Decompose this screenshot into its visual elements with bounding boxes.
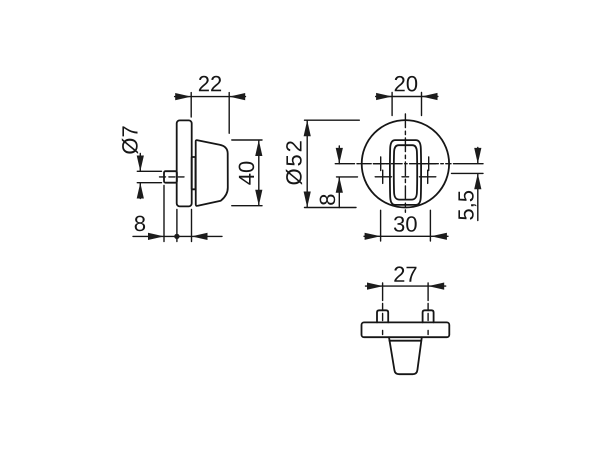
arrow 22 left — [175, 93, 191, 100]
label O52 — [286, 141, 302, 185]
arrow 22 right — [229, 93, 245, 100]
dimension 5,5 lines — [452, 148, 484, 221]
dimension 20 lines — [376, 93, 438, 116]
vertical centerline front view — [404, 114, 406, 212]
dimension 8 side view lines — [133, 186, 222, 242]
arrow O7 top — [137, 156, 144, 172]
spindle axis dashed centerline — [160, 176, 185, 178]
dimension texts — [122, 76, 477, 282]
turn knob side view — [196, 140, 228, 206]
lug cross right — [427, 170, 429, 183]
arrow 30 left — [365, 233, 381, 240]
dimension 40 lines — [232, 140, 262, 206]
arrow 27 right — [428, 283, 444, 290]
bottom view lug centerline right — [427, 304, 429, 335]
dot 8 side chain — [174, 234, 179, 239]
horizontal centerline front view — [335, 163, 371, 165]
arrow 5,5 bottom — [474, 173, 481, 189]
turn knob front view outer — [390, 140, 421, 205]
label 8 front — [320, 195, 336, 205]
arrow 8 front top — [336, 148, 343, 164]
screw hole cross left — [374, 157, 388, 171]
arrow 8 side left-point — [192, 233, 208, 240]
arrow 40 top — [255, 140, 262, 156]
dimension O7 lines — [137, 154, 161, 199]
bottom view olive top edge — [390, 340, 422, 342]
arrow 27 left — [367, 283, 383, 290]
bottom view lug right — [423, 310, 434, 322]
bottom view plate bar — [362, 322, 450, 337]
arrow 20 left — [376, 93, 392, 100]
arrow 8 side right-point — [148, 233, 164, 240]
dimension 27 lines — [366, 283, 446, 301]
bottom view lug centerline left — [382, 304, 384, 335]
arrow O52 bottom — [304, 192, 311, 208]
label O7 — [122, 126, 138, 153]
turn knob front view inner — [394, 145, 417, 199]
knob neck side view — [192, 157, 196, 189]
spindle stub side view — [164, 171, 177, 183]
arrow 5,5 top — [474, 148, 481, 164]
screw hole cross right — [422, 157, 436, 171]
arrow 20 right — [422, 93, 438, 100]
label 20 — [395, 76, 418, 92]
label 8 side — [135, 216, 145, 232]
label 5,5 — [458, 191, 476, 220]
dimension 22 lines — [133, 93, 483, 301]
arrow 8 front bottom — [336, 177, 343, 193]
arrow O52 top — [304, 120, 311, 136]
arrow O7 bottom — [137, 183, 144, 199]
label 27 — [394, 266, 416, 281]
arrow 30 right — [431, 233, 447, 240]
label 30 — [394, 216, 417, 232]
arrowheads — [137, 93, 482, 290]
lug cross left — [382, 170, 384, 183]
rosette plate side view — [177, 120, 192, 206]
dimension 8 front view lines — [337, 146, 358, 208]
bottom view olive knob — [389, 337, 422, 374]
arrow 40 bottom — [255, 190, 262, 206]
bottom view lug left — [377, 310, 388, 322]
dimension O52 lines — [305, 120, 360, 207]
dimension 30 lines — [364, 210, 448, 241]
label 22 — [199, 76, 221, 91]
lug axis dashes — [375, 176, 436, 178]
rosette circle front view — [362, 120, 449, 207]
label 40 — [239, 162, 255, 185]
